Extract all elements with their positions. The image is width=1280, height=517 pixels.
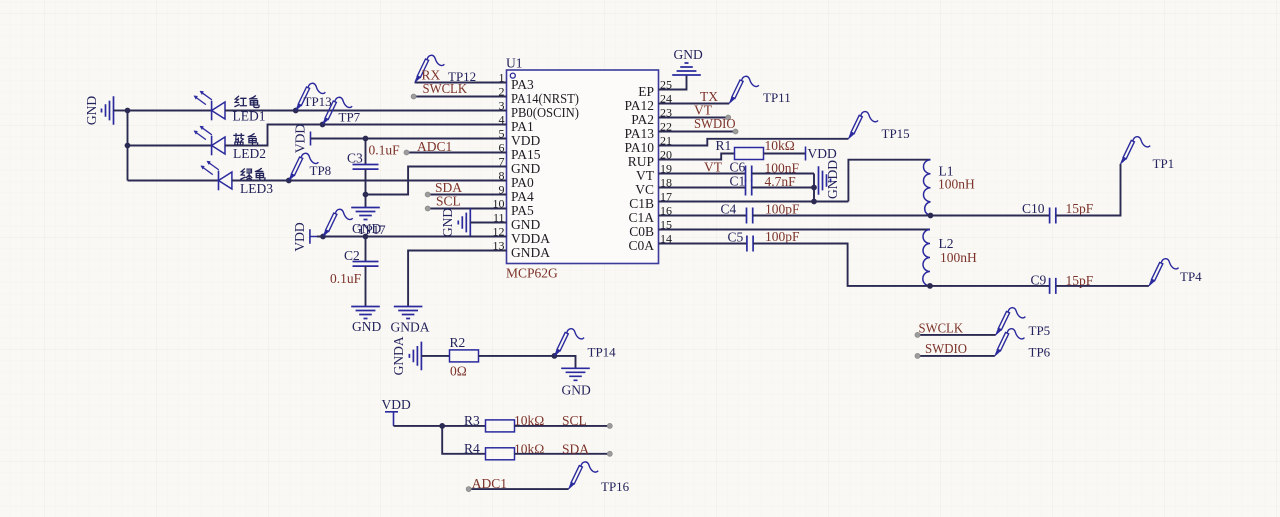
- svg-text:PA2: PA2: [631, 112, 654, 127]
- svg-text:0Ω: 0Ω: [450, 364, 467, 379]
- junction node LED2 row: [125, 143, 131, 149]
- LED1 label 红色: [235, 96, 247, 106]
- svg-text:ADC1: ADC1: [472, 476, 507, 491]
- test point TP17 probe: [323, 209, 353, 236]
- wire pin24 to TP11: [678, 103, 729, 105]
- test point TP12 probe: [415, 55, 445, 82]
- power symbol GND (pin11): [458, 208, 470, 237]
- test point TP16 probe: [569, 462, 599, 489]
- wire pin25 EP to GND: [678, 75, 687, 90]
- svg-text:C6: C6: [730, 160, 746, 175]
- svg-text:VC: VC: [635, 182, 654, 197]
- U1 pin 17 C1B stub: [659, 201, 679, 203]
- power symbol VDD (pin12): [310, 229, 317, 244]
- U1 pin 11 GND stub: [487, 222, 507, 224]
- junction node C1/ground: [811, 185, 817, 191]
- U1 pin 19 VT stub: [659, 173, 679, 175]
- U1 pin 7 GND stub: [487, 166, 507, 168]
- wire pin7 GND to C3 bottom: [366, 167, 507, 195]
- junction node TP14: [552, 353, 558, 359]
- test point TP13 probe: [296, 83, 326, 110]
- svg-text:PA0: PA0: [511, 175, 534, 190]
- wire VDD to pin5: [311, 138, 507, 140]
- U1 pin 21 PA10 stub: [659, 145, 679, 147]
- LED LED2 (blue): [194, 126, 225, 155]
- svg-text:VDD: VDD: [293, 124, 308, 153]
- wire pin13 GNDA down: [408, 251, 506, 307]
- U1 pin 4 PA1 stub: [487, 124, 507, 126]
- svg-text:PA15: PA15: [511, 147, 541, 162]
- svg-text:PA10: PA10: [624, 140, 654, 155]
- svg-text:GNDD: GNDD: [825, 160, 840, 199]
- svg-text:VDD: VDD: [382, 397, 411, 412]
- capacitor C9: [1050, 278, 1056, 294]
- LED2 label 蓝色: [233, 134, 244, 146]
- junction node C2 top: [363, 234, 369, 240]
- svg-text:TP6: TP6: [1029, 345, 1051, 360]
- U1 pin 16 C1A stub: [659, 215, 679, 217]
- inductor L1: [924, 160, 931, 216]
- U1 pin 15 C0B stub: [659, 229, 679, 231]
- junction node TP13: [293, 108, 299, 114]
- U1 pin 6 PA15 stub: [487, 152, 507, 154]
- wire pin20 RUP to R1: [678, 154, 735, 160]
- U1 pin 23 PA2 stub: [659, 117, 679, 119]
- test point TP5 probe: [996, 308, 1026, 335]
- test point TP6 probe: [995, 329, 1025, 356]
- svg-text:LED3: LED3: [240, 181, 273, 196]
- wire LED3 to pin8 PA0: [232, 180, 507, 182]
- power symbol GNDA (R2 row): [409, 342, 421, 371]
- svg-text:GNDA: GNDA: [511, 245, 550, 260]
- net stub SWCLK to TP5: [918, 334, 996, 336]
- U1 pin 24 PA12 stub: [659, 103, 679, 105]
- wire R3 to SCL stub: [515, 425, 610, 427]
- U1 pin 22 PA13 stub: [659, 131, 679, 133]
- svg-text:C4: C4: [721, 202, 737, 217]
- svg-text:VDDA: VDDA: [511, 231, 550, 246]
- wire pin14 C0A to C5: [678, 243, 747, 245]
- resistor R2: [450, 350, 479, 362]
- wire pin16 C1A to C4: [678, 215, 747, 217]
- svg-text:C2: C2: [344, 248, 360, 263]
- wire LED column vertical: [127, 111, 129, 181]
- test point TP11 probe: [729, 76, 759, 103]
- capacitor C3: [353, 139, 379, 208]
- LED3 label 绿色: [241, 169, 252, 180]
- svg-text:TP11: TP11: [763, 90, 791, 105]
- svg-text:L2: L2: [939, 236, 954, 251]
- net stub SCL to pin10: [428, 208, 507, 210]
- svg-text:C3: C3: [347, 151, 363, 166]
- wire ground column vertical: [813, 174, 815, 202]
- svg-text:16: 16: [660, 203, 672, 217]
- svg-text:C1A: C1A: [628, 210, 654, 225]
- wire riser to L1 top: [848, 160, 930, 202]
- svg-text:24: 24: [660, 91, 672, 105]
- svg-text:SWCLK: SWCLK: [919, 321, 964, 336]
- wire junction down to R4: [442, 426, 485, 454]
- svg-text:PA1: PA1: [511, 119, 534, 134]
- test point TP14 probe: [554, 329, 584, 356]
- svg-text:C1: C1: [730, 174, 746, 189]
- svg-text:17: 17: [660, 189, 672, 203]
- power symbol GND (below C3): [351, 208, 380, 220]
- svg-text:EP: EP: [638, 84, 654, 99]
- svg-text:VT: VT: [636, 168, 655, 183]
- svg-text:PA12: PA12: [624, 98, 654, 113]
- svg-text:PA13: PA13: [624, 126, 654, 141]
- svg-text:ADC1: ADC1: [417, 139, 452, 154]
- wire C5 to L2 bottom: [753, 244, 930, 286]
- U1 pin 13 GNDA stub: [487, 250, 507, 252]
- svg-text:PA3: PA3: [511, 77, 534, 92]
- power symbol VDD (R3): [385, 412, 398, 426]
- svg-text:GNDA: GNDA: [391, 320, 430, 335]
- capacitor C2: [353, 237, 379, 307]
- svg-text:18: 18: [660, 175, 672, 189]
- power symbol GNDA (pin13): [394, 307, 423, 319]
- svg-text:U1: U1: [506, 56, 523, 71]
- junction node TP17: [320, 234, 326, 240]
- svg-text:R4: R4: [464, 441, 480, 456]
- net stub RX / test point TP12 wire to pin1: [415, 82, 507, 84]
- svg-text:SCL: SCL: [436, 194, 461, 209]
- svg-text:100nH: 100nH: [940, 250, 977, 265]
- svg-text:15pF: 15pF: [1066, 201, 1094, 216]
- test point TP15 probe: [848, 112, 878, 139]
- svg-text:PA14(NRST): PA14(NRST): [511, 91, 579, 106]
- net stub ADC1 to TP16: [469, 488, 569, 490]
- svg-text:GND: GND: [562, 383, 591, 398]
- svg-text:C1B: C1B: [629, 196, 654, 211]
- U1 pin 8 PA0 stub: [487, 180, 507, 182]
- svg-text:TP13: TP13: [304, 94, 332, 109]
- svg-text:0.1uF: 0.1uF: [369, 143, 401, 158]
- power symbol GNDD: [819, 166, 831, 195]
- svg-text:TP8: TP8: [310, 163, 332, 178]
- test point TP8 probe: [289, 153, 319, 180]
- wire LED1 to pin3 PA14: [225, 110, 507, 112]
- svg-text:22: 22: [660, 119, 672, 133]
- wire LED2 jog up to pin4: [225, 125, 507, 146]
- svg-text:GND: GND: [674, 47, 703, 62]
- test point TP4 probe: [1149, 259, 1179, 286]
- wire C10 to TP1: [1056, 164, 1121, 216]
- junction node TP8: [286, 178, 292, 184]
- svg-text:23: 23: [660, 105, 672, 119]
- svg-text:PA5: PA5: [511, 203, 534, 218]
- capacitor C5: [747, 236, 753, 252]
- capacitor C4: [747, 208, 753, 224]
- capacitor C10: [1050, 208, 1056, 224]
- svg-text:20: 20: [660, 147, 672, 161]
- power symbol GND (below TP14): [561, 368, 590, 380]
- capacitor C1: [746, 180, 752, 196]
- junction node R3/R4: [439, 423, 445, 429]
- svg-text:R3: R3: [464, 413, 480, 428]
- svg-text:R1: R1: [716, 138, 732, 153]
- junction node L1 bottom: [928, 213, 934, 219]
- net stub ADC1 to pin6: [407, 152, 507, 154]
- junction node L2 bottom: [927, 283, 933, 289]
- svg-text:GND: GND: [511, 161, 540, 176]
- svg-text:100pF: 100pF: [765, 229, 800, 244]
- svg-text:GNDA: GNDA: [391, 336, 406, 375]
- op-amp U1 MCP62G chip body: [507, 70, 659, 264]
- svg-text:14: 14: [660, 231, 672, 245]
- U1 pin 18 VC stub: [659, 187, 679, 189]
- svg-text:0.1uF: 0.1uF: [330, 271, 362, 286]
- wire pin17 C1B to L1 riser: [678, 201, 848, 203]
- power symbol GND (pin25): [672, 63, 701, 75]
- svg-text:19: 19: [660, 161, 672, 175]
- svg-text:TP1: TP1: [1153, 156, 1175, 171]
- power symbol VDD (pin5): [310, 132, 312, 146]
- wire L2 bottom to C9: [930, 285, 1050, 287]
- wire VDD to pin12 VDDA: [317, 236, 507, 238]
- wire pin19 VT to C6: [678, 173, 746, 175]
- wire GND to LED column junction: [114, 110, 128, 112]
- svg-text:TP14: TP14: [588, 345, 617, 360]
- svg-text:TP4: TP4: [1180, 269, 1202, 284]
- wire pin18 VC to C1: [678, 187, 746, 189]
- wire GND to pin11: [470, 222, 506, 224]
- U1 pin 9 PA4 stub: [487, 194, 507, 196]
- svg-text:C9: C9: [1031, 273, 1047, 288]
- junction node TP7: [320, 122, 326, 128]
- svg-text:100nH: 100nH: [938, 177, 975, 192]
- wire C9 to TP4: [1056, 285, 1149, 287]
- resistor R4: [486, 448, 515, 460]
- wire LED1 row left: [128, 110, 212, 112]
- wire C4 to C10: [753, 215, 1050, 217]
- wire GNDA to R2: [421, 355, 449, 357]
- U1 pin 20 RUP stub: [659, 159, 679, 161]
- svg-text:TP15: TP15: [882, 126, 910, 141]
- svg-text:PB0(OSCIN): PB0(OSCIN): [511, 105, 579, 120]
- svg-text:GND: GND: [440, 208, 455, 237]
- svg-text:25: 25: [660, 77, 672, 91]
- svg-text:21: 21: [660, 133, 672, 147]
- U1 pin 14 C0A stub: [659, 243, 679, 245]
- svg-text:SWDIO: SWDIO: [694, 116, 736, 131]
- svg-text:MCP62G: MCP62G: [506, 266, 558, 281]
- capacitor C6: [746, 166, 752, 182]
- wire C6 to ground column: [752, 173, 814, 175]
- net stub SWDIO pin22: [678, 131, 736, 133]
- LED LED1 (red): [194, 91, 225, 120]
- svg-text:SWDIO: SWDIO: [925, 341, 967, 356]
- svg-text:R2: R2: [450, 335, 466, 350]
- U1 pin 3 PB0(OSCIN) stub: [487, 110, 507, 112]
- svg-text:VDD: VDD: [292, 222, 307, 251]
- net stub VT pin23: [678, 117, 728, 119]
- U1 pin 25 EP stub: [659, 89, 679, 91]
- svg-text:C0B: C0B: [629, 224, 654, 239]
- svg-text:TP17: TP17: [358, 222, 387, 237]
- junction node C3 bottom: [363, 192, 369, 198]
- wire LED3 row left: [128, 180, 219, 182]
- U1 pin 12 VDDA stub: [487, 236, 507, 238]
- svg-text:GND: GND: [352, 319, 381, 334]
- svg-text:10kΩ: 10kΩ: [765, 138, 795, 153]
- U1 pin 10 PA5 stub: [487, 208, 507, 210]
- svg-text:PA4: PA4: [511, 189, 534, 204]
- svg-text:TP7: TP7: [339, 110, 361, 125]
- svg-text:TP16: TP16: [601, 479, 630, 494]
- svg-text:TP5: TP5: [1029, 323, 1051, 338]
- svg-text:GND: GND: [511, 217, 540, 232]
- svg-text:SDA: SDA: [562, 442, 589, 457]
- svg-text:100pF: 100pF: [765, 202, 800, 217]
- wire pin21 to TP15: [678, 139, 848, 146]
- wire C1 to ground column: [752, 187, 814, 189]
- power symbol VDD (R1): [805, 147, 807, 161]
- U1 pin 1 PA3 stub: [487, 82, 507, 84]
- svg-text:RUP: RUP: [628, 154, 654, 169]
- LED LED3 (green): [201, 161, 232, 190]
- net stub SDA to pin9: [428, 194, 507, 196]
- svg-text:C10: C10: [1022, 201, 1045, 216]
- inductor L2: [923, 230, 930, 286]
- svg-text:VT: VT: [704, 160, 723, 175]
- wire R2 to TP14: [479, 356, 576, 368]
- junction node pin17 column: [811, 199, 817, 205]
- svg-text:SWCLK: SWCLK: [423, 81, 468, 96]
- net stub SWDIO to TP6: [918, 355, 995, 357]
- junction node C3 top: [363, 136, 369, 142]
- svg-text:15: 15: [660, 217, 672, 231]
- wire VDD to R3 junction: [394, 425, 486, 427]
- test point TP1 probe: [1121, 137, 1151, 164]
- svg-text:GND: GND: [84, 96, 99, 125]
- svg-text:C5: C5: [728, 230, 744, 245]
- U1 pin 2 PA14(NRST) stub: [487, 96, 507, 98]
- wire pin15 C0B to L2: [678, 229, 930, 231]
- net stub SWCLK to pin2: [414, 96, 507, 98]
- svg-text:VDD: VDD: [511, 133, 540, 148]
- svg-text:VDD: VDD: [808, 146, 837, 161]
- U1 pin 5 VDD stub: [487, 138, 507, 140]
- junction node LED1 row: [125, 108, 131, 114]
- test point TP7 probe: [323, 97, 353, 124]
- svg-text:SCL: SCL: [562, 413, 587, 428]
- wire R1 to VDD: [764, 153, 806, 155]
- svg-text:C0A: C0A: [628, 238, 654, 253]
- power symbol GND (left of LEDs): [102, 96, 114, 125]
- svg-text:LED2: LED2: [233, 146, 266, 161]
- power symbol GND (below C2): [351, 307, 380, 319]
- wire LED2 row left: [128, 145, 212, 147]
- wire R4 to SDA stub: [515, 453, 610, 455]
- resistor R3: [486, 420, 515, 432]
- resistor R1: [735, 148, 764, 160]
